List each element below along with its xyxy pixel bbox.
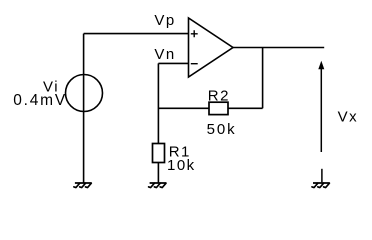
op-amp plus input marker bbox=[191, 30, 198, 37]
wire feedback vertical up to output bbox=[262, 48, 264, 109]
svg-text:R2: R2 bbox=[208, 87, 230, 104]
ground under Vx bbox=[312, 183, 330, 188]
resistor R1 body bbox=[153, 144, 165, 163]
svg-text:0.4mV: 0.4mV bbox=[13, 92, 67, 109]
ground under source Vi bbox=[74, 183, 92, 188]
wire Vp net: top horizontal from source to op-amp + input bbox=[84, 33, 189, 35]
svg-text:50k: 50k bbox=[207, 121, 237, 138]
wire to R2 left terminal bbox=[158, 107, 209, 109]
svg-text:Vn: Vn bbox=[154, 46, 175, 63]
Vx arrow (output voltage indicator) bbox=[318, 61, 324, 152]
op-amp minus input marker bbox=[191, 63, 198, 65]
wire left vertical through source Vi down to ground bbox=[83, 34, 85, 183]
source Vi circle bbox=[66, 75, 103, 112]
wire Vn net: horizontal into op-amp - input bbox=[158, 62, 188, 64]
wire vertical from Vn corner down to R1 bbox=[157, 63, 159, 143]
svg-text:10k: 10k bbox=[167, 157, 196, 174]
svg-text:Vx: Vx bbox=[338, 109, 359, 126]
wire R1 bottom to ground bbox=[157, 163, 159, 183]
wire output from op-amp apex to the right bbox=[233, 47, 324, 49]
svg-text:Vp: Vp bbox=[154, 12, 175, 29]
ground under R1 bbox=[149, 183, 167, 188]
op-amp U1 triangle bbox=[189, 18, 234, 77]
wire stub above Vx ground bbox=[321, 169, 323, 183]
resistor R2 body bbox=[209, 102, 228, 114]
wire R2 right terminal to feedback vertical bbox=[228, 107, 263, 109]
